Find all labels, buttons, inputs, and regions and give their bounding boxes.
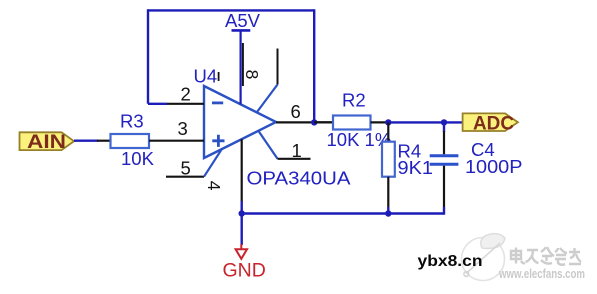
resistor R2 body	[333, 116, 371, 130]
wire R4 to rail	[387, 207, 389, 214]
wire to ADC port	[444, 121, 463, 123]
resistor R4 bottom lead	[387, 177, 389, 207]
wire pin5 diagonal	[204, 148, 222, 176]
op-amp minus input symbol	[212, 102, 223, 105]
pin 1 stub	[278, 158, 311, 160]
pin 5 stub	[166, 176, 204, 178]
power A5V bar symbol	[232, 29, 251, 32]
svg-text:ybx8.cn: ybx8.cn	[418, 253, 483, 270]
pin 4 stub	[241, 139, 243, 201]
svg-text:4: 4	[204, 181, 224, 191]
wire pin1 diagonal	[258, 130, 278, 159]
svg-text:8: 8	[242, 70, 262, 80]
svg-text:10K: 10K	[121, 148, 155, 169]
port ADC flag	[463, 113, 518, 131]
wire feedback top	[148, 9, 314, 11]
ground GND symbol	[236, 249, 247, 258]
wire C4 to rail	[443, 207, 445, 215]
wire pin7 diagonal	[257, 85, 278, 113]
svg-text:GND: GND	[223, 260, 266, 282]
svg-text:6: 6	[291, 101, 301, 122]
wire AIN to R3	[74, 139, 98, 141]
svg-text:2: 2	[181, 83, 191, 104]
junction output node	[311, 119, 317, 125]
ground GND stem	[240, 244, 242, 249]
resistor R4 body	[382, 142, 395, 177]
op-amp U4 triangle	[204, 86, 276, 158]
svg-text:AIN: AIN	[27, 131, 66, 153]
pin 7 stub	[277, 49, 279, 85]
svg-text:1: 1	[292, 140, 302, 161]
capacitor C4 plates	[430, 156, 459, 165]
resistor R3 body	[111, 134, 150, 148]
port AIN flag	[20, 132, 75, 150]
wire C4 top	[443, 122, 445, 132]
svg-text:R2: R2	[342, 90, 366, 111]
capacitor C4 top lead	[443, 131, 445, 154]
wire pin4 to ground node	[240, 201, 242, 245]
svg-text:9K1: 9K1	[398, 157, 434, 178]
junction node after R2	[385, 119, 391, 125]
watermark chinese characters	[511, 247, 581, 265]
wire feedback left	[147, 9, 149, 104]
svg-text:R3: R3	[120, 110, 144, 131]
resistor R3 right lead / pin 3 stub	[149, 140, 204, 142]
svg-text:OPA340UA: OPA340UA	[247, 168, 352, 189]
resistor R2 right lead	[371, 121, 389, 123]
pin 2 stub	[167, 103, 204, 105]
svg-text:A5V: A5V	[225, 10, 261, 31]
watermark logo circle	[462, 234, 506, 281]
svg-text:U4: U4	[194, 66, 218, 87]
svg-text:1000P: 1000P	[465, 156, 523, 177]
svg-text:ADC: ADC	[473, 112, 514, 134]
tick artifact	[218, 72, 220, 81]
junction R4 bottom	[385, 210, 391, 216]
resistor R3 left lead	[97, 140, 111, 142]
capacitor C4 bottom lead	[443, 166, 445, 207]
junction ADC node	[441, 119, 447, 125]
resistor R4 top lead	[387, 122, 389, 141]
resistor R2 left lead	[314, 121, 333, 123]
svg-text:5: 5	[181, 158, 191, 179]
wire R2 to C4 node	[388, 121, 444, 123]
svg-text:www.elecfans.com: www.elecfans.com	[498, 266, 585, 281]
wire bottom rail	[242, 212, 444, 214]
pin 6 output wire	[276, 121, 333, 123]
wire A5V stem	[240, 30, 242, 104]
wire to pin2	[148, 103, 167, 105]
svg-text:3: 3	[178, 118, 188, 139]
wire feedback right	[313, 9, 315, 122]
pin 8 stub	[242, 43, 244, 86]
junction ground node	[239, 210, 245, 216]
op-amp plus input symbol	[212, 135, 224, 147]
